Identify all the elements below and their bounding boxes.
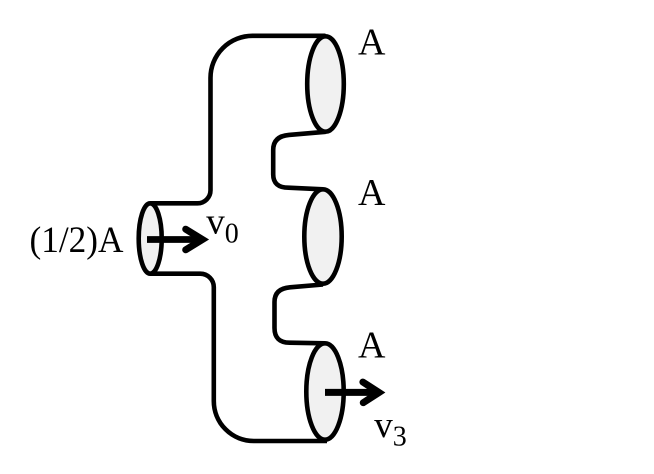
bottom outlet ellipse A bbox=[306, 343, 343, 439]
svg-text:A: A bbox=[358, 324, 386, 366]
wire: outer outline lower part bbox=[150, 274, 327, 441]
arrow v3 shaft bbox=[325, 389, 374, 396]
pipe outer outline (top tube top edge, left wall, inlet cutout, bottom edge) bbox=[150, 36, 327, 441]
svg-text:A: A bbox=[358, 21, 386, 63]
svg-text:(1/2)A: (1/2)A bbox=[30, 220, 124, 261]
svg-text:A: A bbox=[358, 172, 386, 214]
arrow v0 shaft bbox=[147, 236, 197, 243]
arrow v3 head bbox=[359, 379, 385, 407]
wire: outer outline upper part bbox=[150, 36, 325, 204]
top outlet ellipse A bbox=[307, 36, 344, 131]
inlet ellipse (1/2)A bbox=[139, 203, 162, 273]
wire: recess between middle and bottom tubes bbox=[275, 285, 326, 344]
wire: recess between top and middle tubes bbox=[273, 132, 325, 190]
arrow v0 head bbox=[182, 226, 209, 254]
middle outlet ellipse A bbox=[304, 189, 341, 283]
